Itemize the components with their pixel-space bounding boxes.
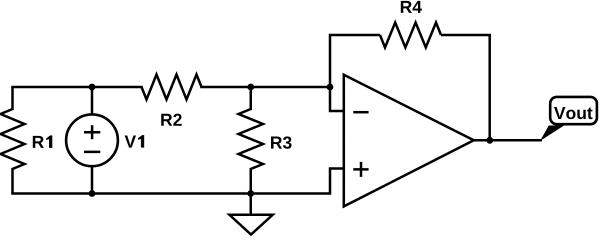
wire bottom net	[13, 169, 345, 194]
junction node at V1 top	[89, 84, 96, 91]
junction node at R3 top	[247, 84, 254, 91]
label V1	[125, 135, 145, 148]
label R3	[271, 136, 292, 148]
Vout flag	[540, 97, 597, 141]
resistor R4	[380, 23, 441, 48]
wire inverting input jog	[330, 87, 344, 111]
wire top net right segment	[202, 86, 331, 89]
wire top net left segment	[13, 86, 142, 89]
resistor R1	[1, 87, 25, 194]
resistor R2	[142, 75, 202, 100]
junction node at R3 bottom	[247, 190, 254, 197]
label R4	[401, 1, 422, 13]
junction node at output	[486, 137, 493, 144]
wire feedback left vertical	[330, 35, 380, 87]
wire output	[474, 139, 542, 142]
label R2	[161, 114, 182, 126]
voltage source V1	[66, 87, 118, 194]
junction node at inverting input	[327, 84, 334, 91]
label R1	[33, 135, 53, 148]
wire feedback right vertical	[441, 35, 490, 140]
op-amp U1	[344, 75, 474, 207]
junction node at V1 bottom	[89, 190, 96, 197]
resistor R3	[239, 87, 264, 194]
ground	[229, 194, 272, 235]
